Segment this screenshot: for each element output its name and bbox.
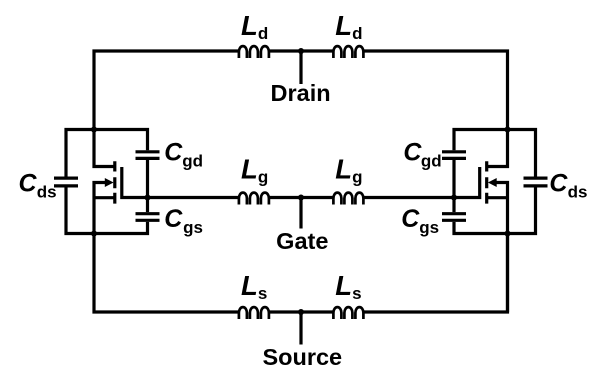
svg-text:C: C (401, 205, 420, 233)
node: source tap junction dot (298, 309, 304, 315)
inductor Lg2 (middle right coil) (333, 193, 363, 205)
transistor Q1 body arrow head (105, 178, 114, 187)
svg-text:L: L (241, 270, 258, 301)
node: right source junction dot (505, 231, 511, 237)
inductor Lg1 (middle left coil) (239, 193, 269, 205)
node: left drain junction dot (91, 127, 97, 133)
wire: right block top rail with Cgd upper lead and Cds upper lead (454, 130, 536, 177)
svg-text:s: s (352, 284, 361, 303)
node: left gate junction dot (145, 195, 151, 201)
wire: bottom rail right segment + right source riser (363, 232, 507, 312)
wire: drain tap stub (299, 51, 302, 84)
wire: Cgd1 lower lead through gate node to Cgs1 upper lead (146, 160, 149, 212)
transistor Q2 drain lead (488, 130, 508, 167)
wire: top rail left segment + left drain riser (94, 51, 239, 131)
wire: source tap stub (299, 312, 302, 345)
capacitor Cgd2 plates (right) (442, 152, 466, 159)
wire: gate rail center segment (269, 196, 334, 199)
svg-text:Drain: Drain (271, 80, 331, 106)
svg-text:ds: ds (37, 183, 57, 202)
capacitor Cgs1 plates (left) (136, 214, 160, 221)
wire: bottom rail center segment (269, 310, 334, 313)
svg-text:L: L (335, 10, 352, 41)
transistor Q2 source lead (488, 196, 508, 199)
wire: right block bottom rail with Cds lower lead and Cgs lower lead (454, 188, 536, 234)
svg-text:s: s (258, 284, 267, 303)
transistor Q2 body lead + source riser to bottom rail corner (496, 183, 508, 313)
svg-text:Gate: Gate (276, 228, 328, 254)
inductor Ld1 (top left coil) (239, 46, 269, 58)
svg-text:Source: Source (262, 344, 342, 370)
svg-text:C: C (164, 205, 183, 233)
wire: Cgd2 lower lead through gate node to Cgs2 upper lead (452, 160, 455, 212)
wire: top rail right segment + right drain riser (363, 51, 507, 131)
node: right gate junction dot (451, 195, 457, 201)
transistor Q2 gate plate and gate wire (456, 167, 480, 198)
wire: top rail center segment (269, 49, 334, 52)
transistor Q2 body arrow head (488, 178, 497, 187)
node: gate tap junction dot (298, 195, 304, 201)
inductor Ld2 (top right coil) (333, 46, 363, 58)
node: drain tap junction dot (298, 48, 304, 54)
svg-text:gs: gs (419, 218, 439, 237)
node: right drain junction dot (505, 127, 511, 133)
capacitor Cds2 plates (right) (524, 178, 548, 186)
wire: gate rail right segment (363, 196, 454, 199)
node: left source junction dot (91, 231, 97, 237)
svg-text:L: L (241, 154, 258, 185)
svg-text:gs: gs (183, 218, 203, 237)
svg-text:d: d (352, 24, 362, 43)
inductor Ls2 (bottom right coil) (333, 307, 363, 319)
capacitor Cds1 plates (left) (54, 178, 78, 186)
transistor Q2 channel bars (485, 161, 488, 203)
svg-text:C: C (549, 170, 568, 198)
svg-text:gd: gd (182, 151, 203, 170)
svg-text:gd: gd (421, 151, 442, 170)
svg-text:d: d (258, 24, 268, 43)
svg-text:L: L (335, 154, 352, 185)
transistor Q1 drain lead (94, 130, 114, 167)
svg-text:C: C (164, 138, 183, 166)
svg-text:g: g (352, 168, 362, 187)
transistor Q1 channel bars (113, 161, 116, 203)
capacitor Cgs2 plates (right) (442, 214, 466, 221)
transistor Q1 source lead (94, 196, 114, 199)
svg-text:ds: ds (568, 183, 588, 202)
wire: left block bottom rail with Cds lower lead and Cgs lower lead (66, 188, 148, 234)
capacitor Cgd1 plates (left) (136, 152, 160, 159)
transistor Q1 body lead + source riser to bottom rail corner (94, 183, 239, 313)
svg-text:C: C (19, 170, 38, 198)
transistor Q1 gate plate and gate wire (122, 167, 146, 198)
svg-text:L: L (241, 10, 258, 41)
svg-text:L: L (335, 270, 352, 301)
svg-text:C: C (403, 138, 422, 166)
inductor Ls1 (bottom left coil) (239, 307, 269, 319)
svg-text:g: g (258, 168, 268, 187)
wire: gate tap stub (299, 198, 302, 229)
wire: left block top rail with Cds upper lead and Cgd upper lead (66, 130, 148, 177)
wire: gate rail left segment (148, 196, 240, 199)
